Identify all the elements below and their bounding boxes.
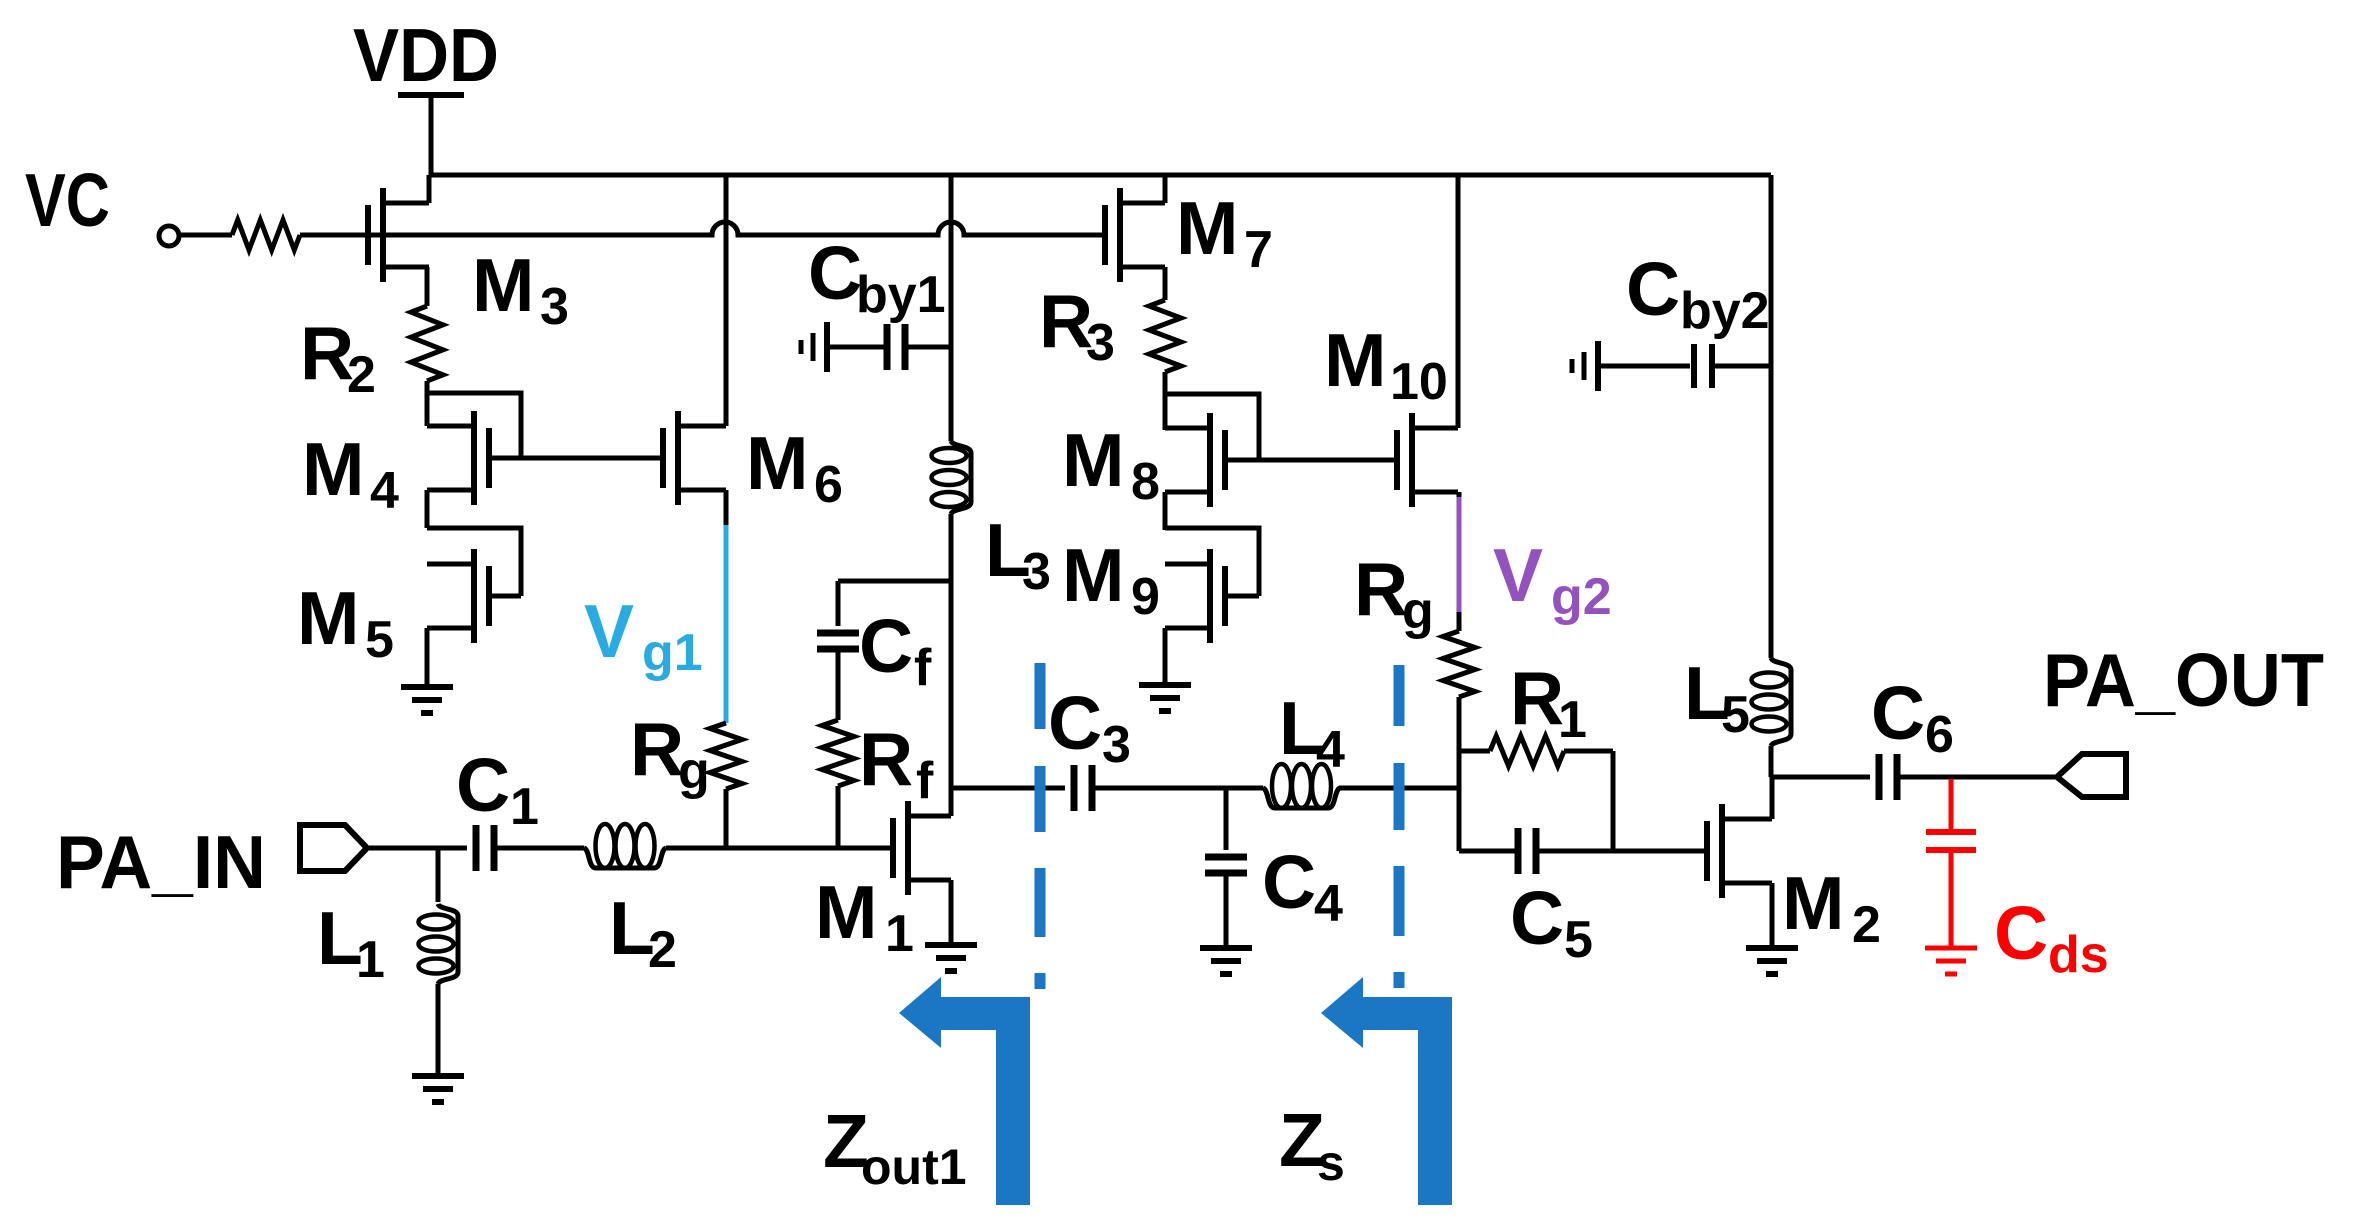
svg-text:M: M <box>1176 186 1238 270</box>
svg-text:C: C <box>1510 876 1564 960</box>
svg-text:C: C <box>1048 681 1102 765</box>
svg-text:4: 4 <box>1314 875 1343 933</box>
svg-text:f: f <box>916 752 934 810</box>
svg-text:M: M <box>815 870 877 954</box>
svg-text:M: M <box>472 243 534 327</box>
svg-text:C: C <box>456 743 510 827</box>
svg-text:1: 1 <box>356 931 385 989</box>
svg-text:1: 1 <box>1558 691 1587 749</box>
svg-text:6: 6 <box>814 456 843 514</box>
svg-text:1: 1 <box>885 905 914 963</box>
svg-text:VC: VC <box>25 158 110 242</box>
svg-text:g: g <box>678 742 710 800</box>
svg-text:V: V <box>1493 533 1543 617</box>
svg-text:C: C <box>1871 671 1925 755</box>
svg-text:R: R <box>1354 547 1408 631</box>
svg-text:M: M <box>1782 861 1844 945</box>
svg-text:1: 1 <box>510 778 539 836</box>
svg-text:4: 4 <box>370 462 399 520</box>
svg-text:VDD: VDD <box>353 13 499 97</box>
svg-text:M: M <box>1062 533 1124 617</box>
svg-text:M: M <box>1062 418 1124 502</box>
svg-text:M: M <box>746 421 808 505</box>
svg-text:C: C <box>1262 840 1316 924</box>
svg-text:C: C <box>1626 247 1680 331</box>
svg-text:4: 4 <box>1316 721 1345 779</box>
svg-text:ds: ds <box>2048 926 2109 984</box>
svg-text:R: R <box>1510 656 1564 740</box>
svg-text:3: 3 <box>1022 543 1051 601</box>
svg-text:V: V <box>584 589 634 673</box>
svg-text:8: 8 <box>1131 453 1160 511</box>
svg-text:g: g <box>1402 582 1434 640</box>
svg-text:by1: by1 <box>856 266 946 324</box>
svg-text:10: 10 <box>1390 353 1448 411</box>
svg-text:g2: g2 <box>1551 568 1612 626</box>
svg-text:5: 5 <box>365 611 394 669</box>
svg-text:3: 3 <box>1086 314 1115 372</box>
svg-text:9: 9 <box>1131 568 1160 626</box>
svg-text:C: C <box>859 604 913 688</box>
svg-text:2: 2 <box>1852 896 1881 954</box>
svg-text:g1: g1 <box>642 624 703 682</box>
svg-text:f: f <box>914 639 932 697</box>
svg-text:R: R <box>630 707 684 791</box>
svg-text:s: s <box>1317 1135 1345 1191</box>
svg-text:out1: out1 <box>861 1139 967 1195</box>
svg-text:3: 3 <box>1102 716 1131 774</box>
svg-text:5: 5 <box>1721 686 1750 744</box>
svg-text:M: M <box>1324 318 1386 402</box>
svg-text:M: M <box>297 576 359 660</box>
svg-text:5: 5 <box>1564 911 1593 969</box>
svg-text:7: 7 <box>1244 221 1273 279</box>
svg-text:6: 6 <box>1925 706 1954 764</box>
svg-text:2: 2 <box>347 346 376 404</box>
svg-text:M: M <box>302 427 364 511</box>
svg-text:C: C <box>1994 891 2048 975</box>
svg-text:R: R <box>859 717 913 801</box>
svg-text:C: C <box>808 231 862 315</box>
svg-text:PA_OUT: PA_OUT <box>2043 638 2324 722</box>
svg-text:3: 3 <box>540 278 569 336</box>
svg-text:2: 2 <box>648 921 677 979</box>
svg-text:PA_IN: PA_IN <box>56 820 266 904</box>
svg-text:by2: by2 <box>1680 282 1770 340</box>
